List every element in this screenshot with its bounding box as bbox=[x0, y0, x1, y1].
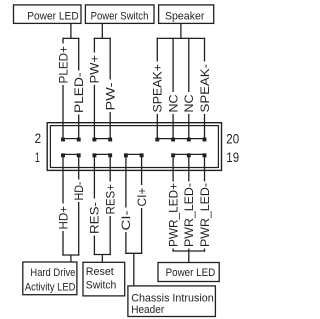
pin group line PLED (pins 2-4) bbox=[63, 138, 79, 140]
pin 7 bbox=[108, 153, 112, 157]
wire CI+ bbox=[135, 156, 149, 254]
svg-text:PWR_LED-: PWR_LED- bbox=[182, 183, 196, 247]
wire PW- bbox=[104, 38, 118, 139]
wire PLED- bbox=[72, 38, 86, 139]
svg-text:Chassis Intrusion: Chassis Intrusion bbox=[131, 292, 214, 304]
wire bar HD pair bbox=[62, 254, 79, 256]
svg-text:PWR_LED+: PWR_LED+ bbox=[166, 183, 180, 247]
pin number 2 bbox=[35, 130, 42, 146]
pin 1 bbox=[61, 153, 65, 157]
pin 17 bbox=[187, 153, 191, 157]
pin 11 bbox=[140, 153, 144, 157]
svg-text:SPEAK-: SPEAK- bbox=[198, 64, 212, 113]
wire RES+ bbox=[104, 156, 118, 255]
pin group line CI (pins 9-11) bbox=[126, 153, 142, 155]
svg-text:PLED+: PLED+ bbox=[56, 46, 70, 84]
wire stub to Chassis Intrusion box bbox=[133, 253, 135, 286]
wire PW+ bbox=[88, 38, 102, 139]
wire SPEAK- bbox=[198, 38, 212, 139]
box Speaker (top) bbox=[159, 5, 214, 24]
pin 16 bbox=[171, 138, 175, 142]
svg-text:19: 19 bbox=[226, 149, 239, 165]
svg-text:Hard Drive: Hard Drive bbox=[30, 267, 75, 279]
svg-text:PLED-: PLED- bbox=[72, 72, 86, 113]
pin 15 bbox=[171, 153, 175, 157]
wire NC (pin 18) bbox=[182, 38, 196, 139]
wire stub to Hard Drive box bbox=[70, 255, 72, 262]
wire PWR_LED- (pin 19) bbox=[198, 156, 212, 252]
pin number 19 bbox=[226, 149, 239, 165]
pin group line Speaker (pins 14-20) bbox=[157, 138, 204, 140]
svg-text:Speaker: Speaker bbox=[165, 11, 205, 23]
svg-text:Power LED: Power LED bbox=[166, 267, 216, 279]
wire bar CI pair bbox=[125, 252, 142, 254]
svg-text:Header: Header bbox=[131, 304, 164, 316]
wire CI- bbox=[119, 156, 133, 254]
svg-text:CI-: CI- bbox=[119, 211, 133, 231]
pin 19 bbox=[203, 153, 207, 157]
svg-text:2: 2 bbox=[35, 130, 42, 146]
pin 5 bbox=[92, 153, 96, 157]
pin 2 bbox=[61, 138, 65, 142]
svg-text:HD+: HD+ bbox=[56, 206, 70, 230]
svg-text:Power LED: Power LED bbox=[27, 11, 79, 23]
wire SPEAK+ bbox=[151, 38, 165, 139]
pin 18 bbox=[187, 138, 191, 142]
wire stub to Reset Switch box bbox=[101, 255, 103, 263]
svg-text:RES-: RES- bbox=[88, 202, 102, 234]
pin number 1 bbox=[35, 149, 40, 165]
wire HD- bbox=[72, 156, 86, 256]
svg-text:PWR_LED-: PWR_LED- bbox=[198, 183, 212, 247]
svg-text:1: 1 bbox=[35, 149, 40, 165]
pin group line PWR_LED (pins 15-19) bbox=[173, 153, 204, 155]
wire stub from Power Switch box bbox=[101, 23, 103, 38]
wire stub from Speaker box bbox=[180, 23, 182, 38]
wire bar PWR_LED group bbox=[173, 250, 206, 252]
pin group line RES (pins 5-7) bbox=[94, 153, 110, 155]
connector inner body bbox=[50, 126, 218, 168]
wire bar PW pair bbox=[94, 37, 111, 39]
connector outer body bbox=[47, 123, 221, 171]
wire HD+ bbox=[56, 156, 70, 256]
svg-text:RES+: RES+ bbox=[104, 184, 118, 215]
wire PWR_LED+ bbox=[166, 156, 180, 252]
wire PLED+ bbox=[56, 38, 70, 139]
box Hard Drive Activity LED bbox=[23, 262, 77, 295]
wire stub from Power LED box bbox=[70, 23, 72, 38]
wire stub to Power LED bottom box bbox=[188, 251, 190, 263]
svg-text:CI+: CI+ bbox=[135, 188, 149, 207]
pin 20 bbox=[203, 138, 207, 142]
box Power Switch (top) bbox=[85, 5, 154, 24]
box Power LED (top) bbox=[14, 5, 82, 24]
pin 4 bbox=[77, 138, 81, 142]
pin 8 bbox=[108, 138, 112, 142]
svg-text:Switch: Switch bbox=[86, 280, 117, 292]
wire bar PLED pair bbox=[63, 37, 80, 39]
wire NC (pin 16) bbox=[166, 38, 180, 139]
pin 14 bbox=[155, 138, 159, 142]
pin group line PW (pins 6-8) bbox=[94, 138, 110, 140]
svg-text:NC: NC bbox=[182, 94, 196, 112]
box Reset Switch bbox=[83, 262, 125, 296]
svg-text:PW+: PW+ bbox=[88, 55, 102, 84]
box Chassis Intrusion Header bbox=[128, 286, 215, 317]
svg-text:Power Switch: Power Switch bbox=[91, 11, 149, 23]
svg-text:NC: NC bbox=[166, 94, 180, 112]
svg-text:Activity LED: Activity LED bbox=[25, 282, 76, 294]
svg-text:HD-: HD- bbox=[72, 181, 86, 200]
wire PWR_LED- (pin 17) bbox=[182, 156, 196, 252]
svg-text:20: 20 bbox=[226, 130, 239, 146]
svg-text:PW-: PW- bbox=[104, 82, 118, 110]
pin number 20 bbox=[226, 130, 239, 146]
svg-text:Reset: Reset bbox=[86, 266, 114, 278]
wire bar Speaker group bbox=[157, 37, 206, 39]
box Power LED (bottom) bbox=[158, 263, 219, 282]
pin 9 bbox=[124, 153, 128, 157]
pin 6 bbox=[92, 138, 96, 142]
wire RES- bbox=[88, 156, 102, 255]
pin group line HD (pins 1-3) bbox=[63, 153, 79, 155]
pin 3 bbox=[77, 153, 81, 157]
wire bar RES pair bbox=[94, 254, 111, 256]
svg-text:SPEAK+: SPEAK+ bbox=[151, 64, 165, 113]
